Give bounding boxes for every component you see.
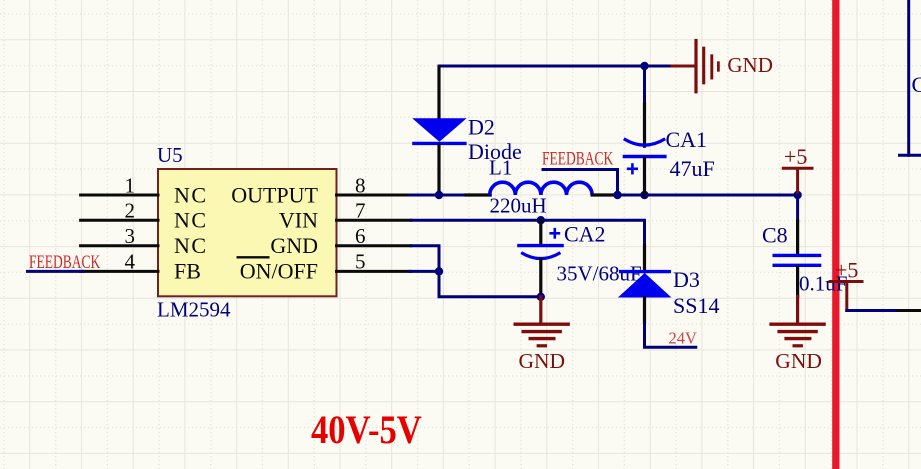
- title 40V-5V: [311, 409, 422, 453]
- pin 8 lead: [337, 194, 411, 197]
- svg-text:40V-5V: 40V-5V: [311, 409, 422, 453]
- pin name GND (pin 6): [270, 233, 318, 258]
- value label 35V/68uF: [557, 261, 642, 285]
- svg-text:NC: NC: [174, 182, 208, 207]
- svg-text:LM2594: LM2594: [157, 298, 231, 322]
- pin name ON/OFF (pin 5): [237, 257, 319, 283]
- pin name NC (pin 2): [174, 208, 208, 233]
- pin 5 lead: [337, 270, 411, 273]
- capacitor C8 top lead: [796, 195, 799, 254]
- pin number 4: [125, 250, 136, 274]
- pin 6 lead: [337, 244, 411, 247]
- value label LM2594: [157, 298, 231, 322]
- diode D2 triangle: [412, 118, 466, 142]
- inductor L1 right lead: [592, 193, 616, 196]
- wire feedback tap: [542, 170, 618, 196]
- ground GND (top, rotated bars): [672, 41, 718, 92]
- value label 0.1uF: [799, 272, 847, 296]
- pin number 8: [355, 173, 366, 197]
- adjacent block edge (top right): [900, 0, 921, 155]
- wire inductor output to +5 node: [618, 194, 798, 197]
- inductor L1 left lead: [466, 193, 490, 196]
- wire output-diode node to GND (top): [439, 65, 672, 68]
- junction at CA1 bottom: [640, 191, 648, 199]
- pin name OUTPUT (pin 8): [231, 182, 318, 207]
- svg-text:GND: GND: [270, 233, 318, 258]
- label GND (top): [727, 53, 773, 77]
- op-amp U5 body (LM2594 regulator): [158, 169, 337, 296]
- svg-text:NC: NC: [174, 208, 208, 233]
- capacitor CA1 curved plate: [624, 139, 665, 145]
- ground GND (below CA2): [515, 297, 568, 346]
- ground GND (below C8): [771, 297, 824, 346]
- wire GND column drop: [643, 66, 646, 106]
- junction at feedback tap: [613, 191, 621, 199]
- designator D3: [673, 267, 700, 292]
- diode D2 cathode bar: [412, 142, 466, 145]
- pin 1 lead: [81, 194, 158, 197]
- pin name NC (pin 3): [174, 233, 208, 258]
- svg-text:FEEDBACK: FEEDBACK: [542, 148, 614, 169]
- svg-text:FEEDBACK: FEEDBACK: [29, 252, 101, 273]
- junction at CA2 bottom: [537, 293, 545, 301]
- pin 7 lead: [337, 219, 411, 222]
- junction at +5 / C8: [793, 191, 801, 199]
- capacitor CA2 top lead: [539, 220, 542, 244]
- label GND (C8): [775, 349, 822, 373]
- power +5 (right): [830, 282, 862, 311]
- pin 3 lead: [81, 244, 158, 247]
- pin number 6: [355, 224, 366, 248]
- pin name NC (pin 1): [174, 182, 208, 207]
- svg-text:24V: 24V: [669, 329, 698, 348]
- designator D2: [468, 114, 495, 139]
- designator U5: [157, 143, 183, 167]
- net label 24V: [669, 329, 698, 348]
- capacitor CA1 bottom lead: [643, 158, 646, 195]
- net label FEEDBACK (left): [29, 252, 101, 273]
- net label FEEDBACK (right): [542, 148, 614, 169]
- designator L1: [489, 156, 512, 180]
- capacitor C8 bottom lead: [796, 267, 799, 297]
- power +5 (output): [783, 168, 812, 195]
- wire pin6 GND net: [410, 246, 439, 272]
- diode D3 anode lead: [643, 298, 646, 323]
- label GND (middle): [519, 349, 566, 373]
- pin 4 lead: [81, 270, 158, 273]
- svg-text:NC: NC: [174, 233, 208, 258]
- svg-text:D2: D2: [468, 114, 495, 139]
- svg-text:+5: +5: [835, 258, 858, 283]
- junction at D2 cathode / pin 8: [435, 191, 443, 199]
- svg-text:OUTPUT: OUTPUT: [231, 182, 318, 207]
- diode D3 cathode bar: [619, 270, 671, 273]
- wire pin5 ON/OFF net: [410, 270, 439, 273]
- value label Diode: [468, 139, 522, 164]
- junction at CA1 top / GND wire: [640, 62, 648, 70]
- svg-text:FB: FB: [174, 259, 201, 284]
- svg-text:L1: L1: [489, 156, 512, 180]
- wire +5 right rail: [847, 309, 921, 312]
- svg-text:CA1: CA1: [666, 127, 708, 152]
- value label 220uH: [490, 194, 547, 218]
- pin number 1: [125, 173, 136, 197]
- svg-text:ON/OFF: ON/OFF: [240, 259, 318, 284]
- svg-text:+5: +5: [784, 144, 807, 169]
- capacitor C8 plates: [773, 255, 822, 265]
- junction at CA2 top: [537, 216, 545, 224]
- inductor L1 humps: [490, 182, 592, 195]
- sheet divider red line: [832, 0, 839, 469]
- label +5 (output): [784, 144, 807, 169]
- label +5 (right): [835, 258, 858, 283]
- svg-text:GND: GND: [775, 349, 822, 373]
- wire down to bottom rail: [439, 271, 541, 296]
- pin number 7: [355, 199, 366, 223]
- svg-text:CA2: CA2: [564, 222, 606, 247]
- svg-text:C8: C8: [762, 223, 788, 248]
- adjacent block text C: [912, 72, 921, 97]
- diode D3 triangle: [618, 273, 672, 298]
- svg-text:VIN: VIN: [279, 208, 318, 233]
- svg-text:D3: D3: [673, 267, 700, 292]
- diode D2 cathode lead: [437, 145, 440, 195]
- wire D3 anode to 24V: [645, 322, 698, 347]
- svg-text:47uF: 47uF: [670, 156, 715, 181]
- svg-text:220uH: 220uH: [490, 194, 547, 218]
- capacitor CA1 plus sign: [627, 163, 638, 174]
- designator C8: [762, 223, 788, 248]
- value label 47uF: [670, 156, 715, 181]
- pin number 2: [125, 199, 136, 223]
- capacitor CA2 curved plate: [521, 253, 560, 259]
- capacitor CA2 plus sign: [549, 228, 560, 239]
- pin 2 lead: [81, 219, 158, 222]
- svg-text:GND: GND: [727, 53, 773, 77]
- value label SS14: [673, 293, 719, 318]
- wire pin8 to inductor: [410, 194, 468, 197]
- pin name VIN (pin 7): [279, 208, 318, 233]
- svg-text:SS14: SS14: [673, 293, 719, 318]
- svg-text:U5: U5: [157, 143, 183, 167]
- diode D2 anode lead: [437, 68, 440, 119]
- pin number 3: [125, 224, 136, 248]
- designator CA2: [564, 222, 606, 247]
- capacitor CA2 straight plate: [517, 244, 564, 247]
- pin number 5: [355, 250, 366, 274]
- svg-text:GND: GND: [519, 349, 566, 373]
- diode D3 cathode lead: [643, 246, 646, 272]
- junction pin5/pin6 nets: [435, 267, 443, 275]
- wire pin7 VIN to D3: [410, 220, 645, 247]
- capacitor CA2 bottom lead: [539, 260, 542, 297]
- pin name FB (pin 4): [174, 259, 201, 284]
- svg-text:C: C: [912, 72, 921, 97]
- capacitor CA1 top lead: [643, 104, 646, 146]
- capacitor CA1 straight plate: [623, 155, 667, 158]
- designator CA1: [666, 127, 708, 152]
- wire FEEDBACK net to FB pin: [28, 270, 83, 273]
